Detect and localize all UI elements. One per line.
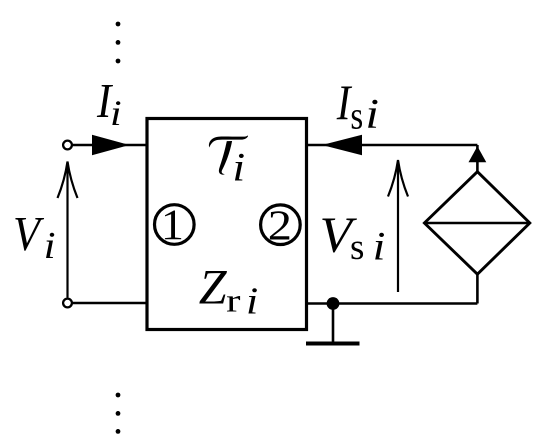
svg-text:i: i <box>110 93 122 133</box>
top continuation dots <box>116 22 121 64</box>
dependent source bottom stub <box>476 274 479 303</box>
svg-text:1: 1 <box>161 200 184 248</box>
svg-text:r: r <box>226 283 241 319</box>
label V_si <box>319 208 385 269</box>
wire top-right <box>307 144 478 147</box>
dependent source top stub <box>476 145 479 173</box>
svg-text:i: i <box>373 225 386 268</box>
svg-text:s: s <box>350 226 364 267</box>
dependent source diamond <box>424 172 529 275</box>
svg-text:s: s <box>350 94 363 137</box>
voltage arrow V_i <box>58 162 78 298</box>
port 2 circled <box>261 201 301 249</box>
voltage arrow V_si <box>388 160 408 292</box>
svg-text:2: 2 <box>268 201 292 249</box>
current arrow I_si <box>322 135 362 155</box>
current arrow I_i <box>92 135 130 155</box>
label I_i <box>96 74 122 133</box>
wire bottom-right <box>307 302 478 305</box>
wire top-left <box>73 144 148 147</box>
label T_i (script T) <box>209 135 248 189</box>
dependent source direction arrow <box>469 146 487 162</box>
wire bottom-left <box>73 302 148 305</box>
svg-text:i: i <box>232 146 245 190</box>
svg-text:I: I <box>336 74 352 129</box>
svg-text:i: i <box>365 90 379 137</box>
label Z_ri <box>199 260 258 322</box>
bottom continuation dots <box>116 393 121 434</box>
svg-text:V: V <box>13 208 44 262</box>
svg-text:i: i <box>44 224 56 266</box>
ground <box>306 304 360 344</box>
svg-text:Z: Z <box>199 260 228 315</box>
terminal bottom-left <box>63 299 72 308</box>
terminal top-left <box>63 141 72 150</box>
two-port box T_i <box>147 119 307 330</box>
svg-text:i: i <box>246 279 258 322</box>
label V_i <box>13 208 56 267</box>
junction dot <box>327 297 340 310</box>
label I_si <box>336 74 379 137</box>
port 1 circled <box>155 200 195 248</box>
